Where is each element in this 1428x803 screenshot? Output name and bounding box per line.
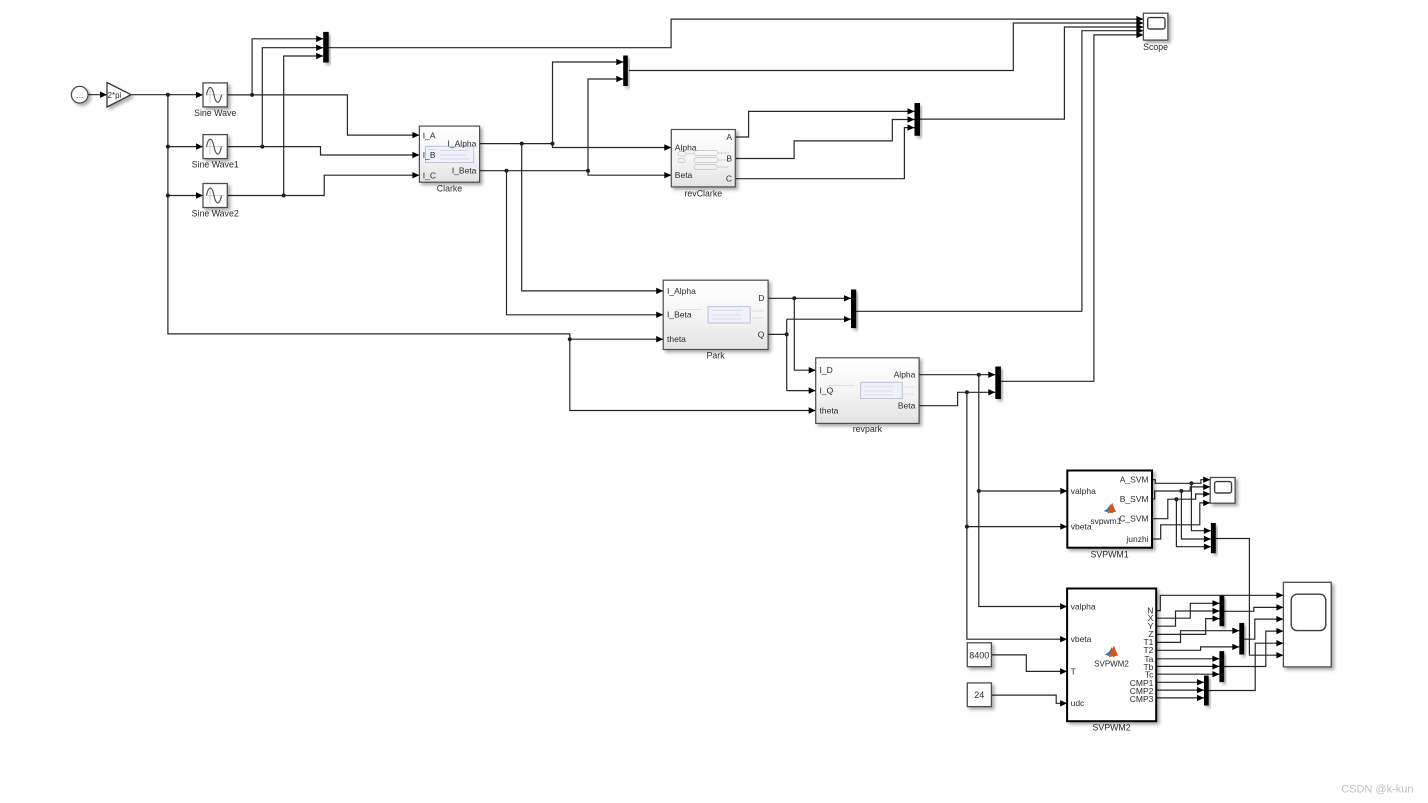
- svg-text:I_B: I_B: [423, 150, 436, 160]
- source circle: [71, 86, 88, 103]
- svg-text:vbeta: vbeta: [1071, 522, 1092, 532]
- constant 24: [967, 683, 991, 707]
- wire T1 to mux8 in1: [1156, 628, 1239, 643]
- wire mux2 to Scope in2: [629, 20, 1143, 71]
- matlab logo U1: [1103, 503, 1116, 514]
- svg-text:valpha: valpha: [1071, 601, 1096, 611]
- wire mux8 to big scope in3: [1244, 616, 1283, 639]
- svg-text:theta: theta: [820, 405, 839, 415]
- svg-text:C_SVM: C_SVM: [1119, 514, 1148, 524]
- wire Tb to mux9 in2: [1156, 663, 1219, 669]
- svg-text:Clarke: Clarke: [437, 183, 463, 193]
- wire branch to Sine Wave2: [168, 192, 203, 198]
- wire constant 8400 to T: [991, 655, 1067, 675]
- wire Ta to mux9 in1: [1156, 656, 1219, 662]
- wire Park Q to mux4: [768, 316, 851, 391]
- svg-text:I_D: I_D: [820, 365, 833, 375]
- svg-text:svpwm1: svpwm1: [1090, 516, 1121, 526]
- wire I_Beta branch to mux2: [588, 76, 623, 171]
- wire CMP2 to mux10 in2: [1156, 687, 1204, 693]
- wire theta to Park: [570, 336, 663, 342]
- sine wave block Sine Wave2: [203, 184, 227, 208]
- wire Sine Wave1 to Clarke I_B: [227, 145, 419, 159]
- svg-text:theta: theta: [667, 334, 686, 344]
- wire T2 to mux8 in2: [1156, 644, 1239, 651]
- wire X to mux7 in1: [1156, 600, 1219, 618]
- svg-text:junzhi: junzhi: [1125, 534, 1148, 544]
- wire mux1 to Scope in1: [329, 16, 1144, 48]
- wire I_Alpha branch to mux2: [553, 59, 624, 144]
- subsystem Park: [663, 280, 768, 349]
- subsystem revClarke: [671, 130, 735, 187]
- wire valpha trunk down: [977, 375, 1067, 610]
- mux5 after revpark: [995, 367, 1001, 400]
- matlab function block SVPWM1: [1067, 471, 1152, 548]
- svg-text:C: C: [726, 174, 732, 184]
- wire A_SVM to scope1 in1: [1152, 477, 1210, 486]
- svg-text:revClarke: revClarke: [684, 189, 722, 199]
- svg-text:valpha: valpha: [1071, 486, 1096, 496]
- mux4 after Park: [851, 290, 856, 329]
- svg-text:Beta: Beta: [898, 401, 916, 411]
- wire Y to mux7 in2: [1156, 608, 1219, 626]
- wire mux5 to Scope in5: [1001, 32, 1144, 382]
- svg-text:Beta: Beta: [675, 170, 693, 180]
- wire revpark Alpha to mux5: [919, 372, 995, 378]
- svg-text:I_Alpha: I_Alpha: [667, 286, 696, 296]
- svg-text:B: B: [726, 153, 732, 163]
- svg-text:T: T: [1071, 666, 1076, 676]
- mux3 after revClarke: [915, 103, 921, 136]
- constant 8400: [967, 643, 991, 667]
- wire I_Alpha branch to Park: [522, 144, 664, 294]
- mux7 XYZ: [1220, 596, 1225, 627]
- svg-text:Park: Park: [707, 350, 726, 360]
- svg-text:I_C: I_C: [423, 170, 436, 180]
- svg-text:revpark: revpark: [853, 424, 883, 434]
- scope Scope top right: [1143, 13, 1168, 40]
- subsystem Clarke: [419, 126, 479, 182]
- wire CMP1 to mux10 in1: [1156, 679, 1204, 685]
- svg-text:8400: 8400: [969, 650, 989, 660]
- svg-text:Sine Wave1: Sine Wave1: [192, 160, 239, 170]
- wire revClarke C to mux3: [735, 124, 914, 178]
- wire Park Q branch to revpark I_Q: [787, 387, 816, 393]
- mux1 top left: [323, 32, 329, 63]
- mux10 CMP: [1204, 676, 1209, 706]
- wire Park D branch to revpark I_D: [794, 298, 815, 373]
- svg-text:SVPWM1: SVPWM1: [1091, 550, 1129, 560]
- svg-text:I_Beta: I_Beta: [452, 166, 477, 176]
- svg-text:A: A: [726, 132, 732, 142]
- svg-text:Sine Wave: Sine Wave: [194, 108, 236, 118]
- matlab logo U2: [1105, 646, 1119, 658]
- svg-text:Alpha: Alpha: [894, 370, 916, 380]
- wire mux9 to big scope in4: [1224, 628, 1284, 667]
- sine wave block Sine Wave1: [203, 135, 227, 159]
- svg-text:I_Beta: I_Beta: [667, 310, 692, 320]
- wire Sine Wave2 branch to mux1: [284, 53, 324, 196]
- svg-text:2*pi: 2*pi: [108, 91, 122, 100]
- wire Z to mux7 in3: [1156, 615, 1219, 634]
- svg-text:CMP3: CMP3: [1130, 694, 1154, 704]
- svg-text:I_Q: I_Q: [820, 386, 834, 396]
- wire theta trunk down: [166, 95, 572, 342]
- svg-text:CSDN @k-kun: CSDN @k-kun: [1341, 784, 1413, 796]
- svg-text:vbeta: vbeta: [1071, 634, 1092, 644]
- big scope bottom right: [1283, 582, 1331, 667]
- svg-text:...: ...: [76, 90, 84, 100]
- svg-text:Scope: Scope: [1143, 42, 1168, 52]
- wire C_SVM branch to mux6: [1176, 499, 1211, 550]
- svg-text:udc: udc: [1071, 698, 1085, 708]
- mux6 after SVPWM1: [1211, 523, 1216, 553]
- svg-text:Sine Wave2: Sine Wave2: [192, 208, 239, 218]
- wire Park D to mux4: [768, 295, 851, 301]
- svg-text:SVPWM2: SVPWM2: [1094, 660, 1129, 669]
- mux8 T1T2: [1239, 623, 1244, 655]
- wire junzhi to scope1 in4: [1152, 500, 1210, 539]
- wire branch to Sine Wave1: [168, 143, 203, 149]
- subsystem revpark: [816, 358, 919, 424]
- wire revClarke B to mux3: [735, 116, 914, 158]
- svg-text:SVPWM2: SVPWM2: [1093, 723, 1131, 733]
- svg-text:Alpha: Alpha: [675, 142, 697, 152]
- wire N to big scope in1: [1156, 592, 1283, 611]
- wire mux4 to Scope in4: [856, 28, 1143, 312]
- wire branch to SVPWM1 valpha: [979, 488, 1068, 494]
- wire CMP3 to mux10 in3: [1156, 695, 1204, 701]
- wire Clarke I_Beta to revClarke Beta: [480, 169, 672, 179]
- wire A_SVM branch to mux6: [1191, 483, 1211, 534]
- scope1 small near SVPWM1: [1210, 478, 1235, 504]
- wire vbeta trunk down: [965, 392, 1067, 642]
- wire Sine Wave2 to Clarke I_C: [227, 172, 419, 198]
- svg-text:I_Alpha: I_Alpha: [448, 139, 477, 149]
- wire branch to SVPWM1 vbeta: [967, 523, 1067, 529]
- wire gain to Sine Wave: [131, 92, 203, 98]
- mux9 TaTbTc: [1219, 651, 1224, 682]
- wire B_SVM to scope1 in2: [1152, 484, 1210, 499]
- svg-text:D: D: [758, 293, 764, 303]
- svg-text:24: 24: [974, 690, 984, 700]
- svg-text:Q: Q: [758, 329, 765, 339]
- wire B_SVM branch to mux6: [1181, 491, 1211, 542]
- svg-text:B_SVM: B_SVM: [1120, 494, 1149, 504]
- gain 2*pi: [107, 83, 131, 108]
- wire mux10 to big scope in5: [1208, 640, 1283, 691]
- wire C_SVM to scope1 in3: [1152, 491, 1210, 519]
- wire Clarke I_Alpha to revClarke Alpha: [480, 142, 672, 151]
- wire constant 24 to udc: [991, 695, 1067, 706]
- wire revpark Beta to mux5: [919, 389, 995, 406]
- wire theta to revpark: [570, 339, 816, 413]
- wire Sine Wave1 branch to mux1: [262, 45, 323, 147]
- wire Sine Wave branch to mux1: [252, 36, 323, 95]
- wire mux3 to Scope in3: [920, 24, 1143, 119]
- wire source to gain: [88, 92, 107, 98]
- wire I_Beta branch to Park: [507, 171, 664, 318]
- wire revClarke A to mux3: [735, 108, 914, 137]
- svg-text:A_SVM: A_SVM: [1120, 475, 1149, 485]
- wire Tc to mux9 in3: [1156, 671, 1219, 677]
- matlab function block SVPWM2: [1067, 589, 1156, 722]
- wire mux6 to big scope in6: [1215, 539, 1283, 659]
- sine wave block Sine Wave: [203, 83, 227, 107]
- wire mux7 to big scope in2: [1224, 604, 1283, 611]
- svg-text:I_A: I_A: [423, 130, 436, 140]
- mux2: [623, 56, 628, 87]
- wire Sine Wave to Clarke I_A: [227, 93, 419, 138]
